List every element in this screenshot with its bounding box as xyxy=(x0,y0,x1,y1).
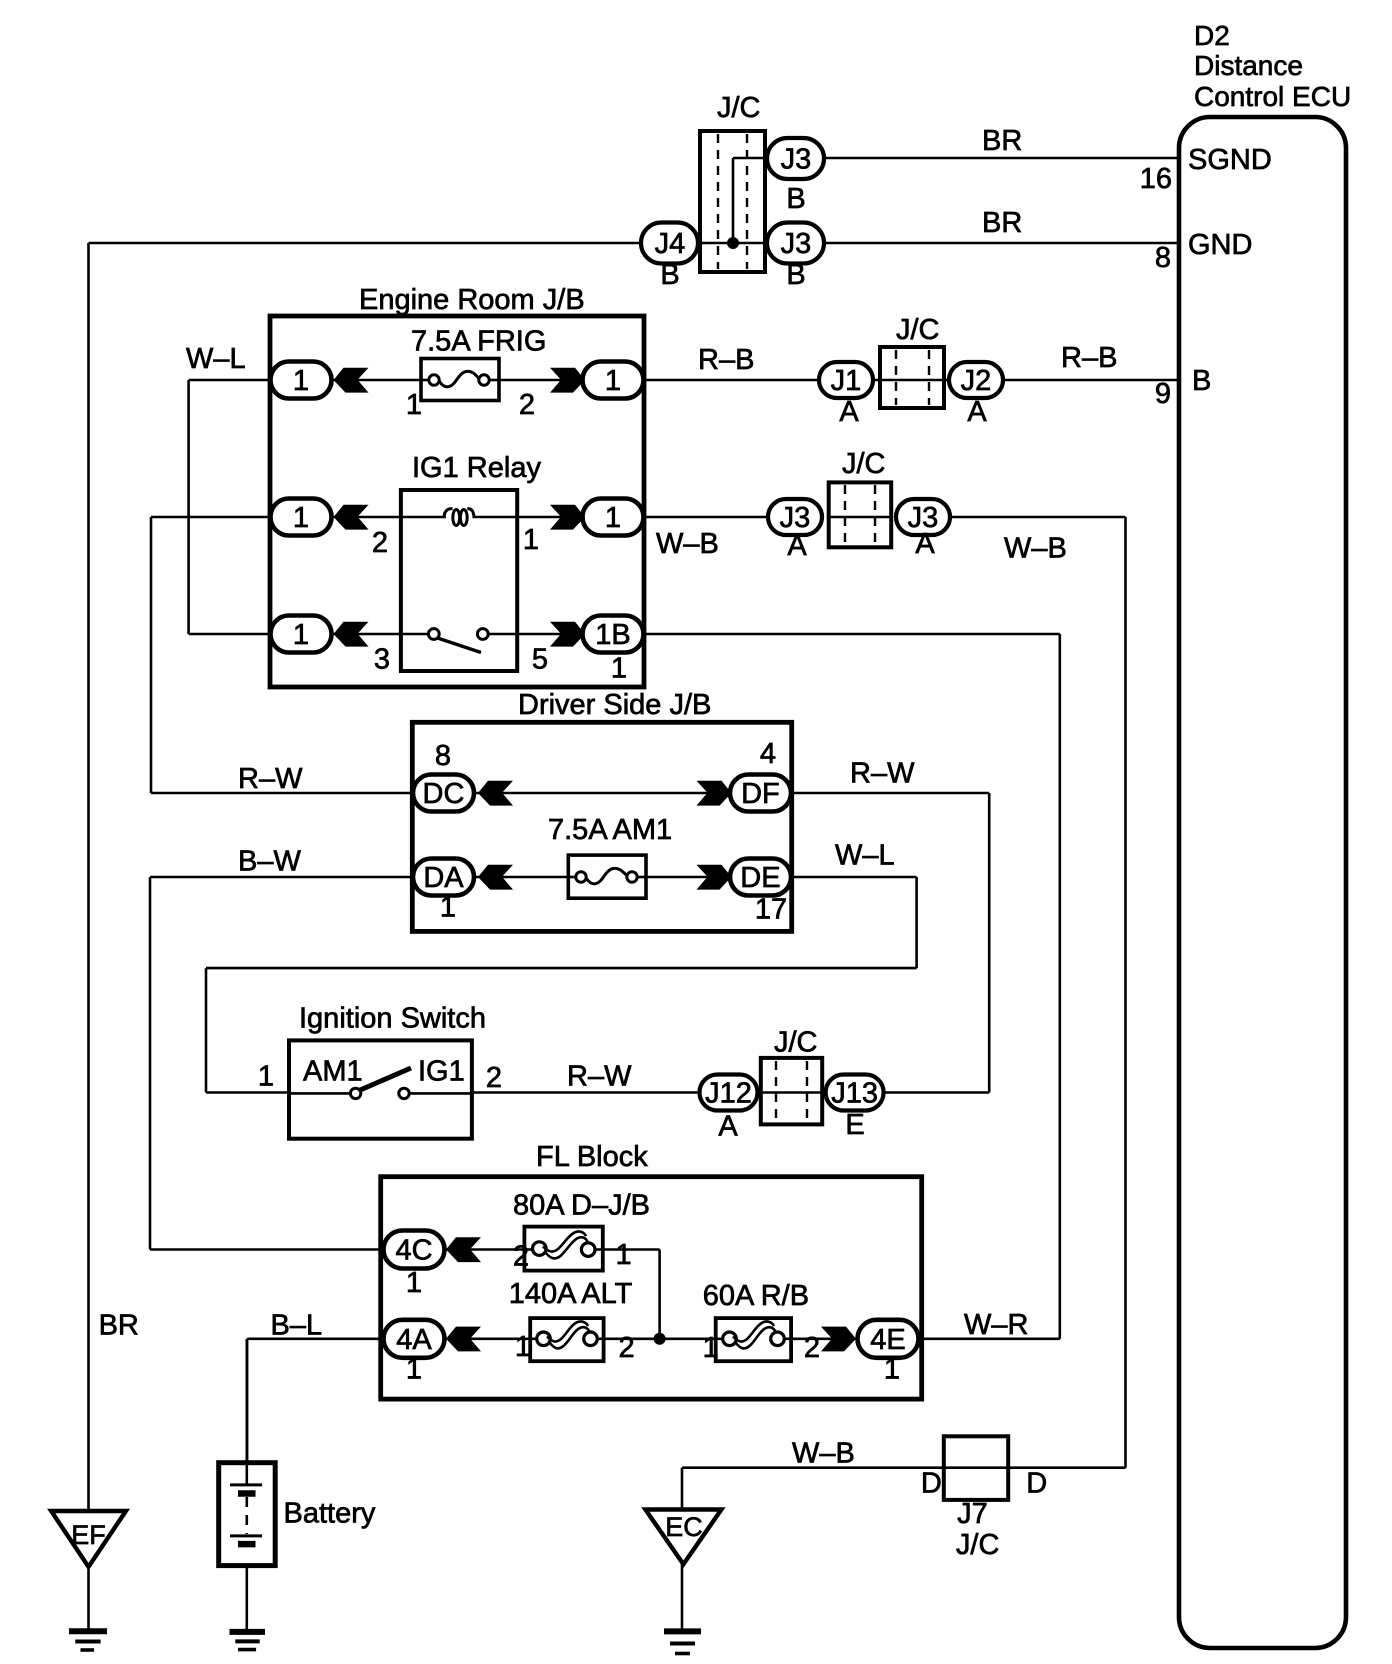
svg-text:8: 8 xyxy=(1155,242,1171,274)
svg-text:J4: J4 xyxy=(655,228,686,260)
svg-text:1: 1 xyxy=(523,524,539,556)
svg-text:1: 1 xyxy=(611,652,627,684)
svg-text:B–L: B–L xyxy=(271,1309,323,1341)
svg-text:DF: DF xyxy=(741,778,780,810)
svg-text:J12: J12 xyxy=(705,1078,752,1110)
svg-text:A: A xyxy=(718,1110,738,1142)
svg-text:A: A xyxy=(967,396,987,428)
svg-text:16: 16 xyxy=(1140,163,1172,195)
svg-text:J7: J7 xyxy=(957,1498,988,1530)
svg-text:J/C: J/C xyxy=(842,448,886,480)
svg-text:E: E xyxy=(845,1109,864,1141)
svg-text:R–W: R–W xyxy=(238,763,303,795)
svg-text:SGND: SGND xyxy=(1188,144,1272,176)
svg-text:2: 2 xyxy=(619,1332,635,1364)
svg-text:Driver Side J/B: Driver Side J/B xyxy=(518,689,711,721)
svg-text:1: 1 xyxy=(605,365,621,397)
svg-text:FL Block: FL Block xyxy=(536,1141,648,1173)
svg-text:B: B xyxy=(660,259,679,291)
svg-text:1: 1 xyxy=(616,1239,632,1271)
svg-text:R–B: R–B xyxy=(698,344,754,376)
svg-text:D: D xyxy=(1026,1468,1047,1500)
svg-text:DA: DA xyxy=(423,862,464,894)
svg-text:17: 17 xyxy=(755,893,787,925)
svg-text:80A D–J/B: 80A D–J/B xyxy=(513,1190,650,1222)
svg-text:2: 2 xyxy=(513,1241,529,1273)
svg-text:1: 1 xyxy=(293,619,309,651)
svg-text:1: 1 xyxy=(884,1353,900,1385)
svg-text:4E: 4E xyxy=(870,1324,905,1356)
svg-text:Control ECU: Control ECU xyxy=(1194,81,1351,112)
svg-text:1: 1 xyxy=(440,891,456,923)
svg-text:AM1: AM1 xyxy=(303,1056,363,1088)
svg-text:1: 1 xyxy=(515,1331,531,1363)
svg-text:1: 1 xyxy=(406,1267,422,1299)
svg-text:IG1 Relay: IG1 Relay xyxy=(412,452,541,484)
svg-text:EF: EF xyxy=(71,1520,106,1550)
svg-text:Ignition Switch: Ignition Switch xyxy=(299,1003,486,1035)
svg-text:60A R/B: 60A R/B xyxy=(703,1280,809,1312)
svg-text:R–W: R–W xyxy=(567,1061,632,1093)
svg-text:A: A xyxy=(787,530,807,562)
svg-text:1: 1 xyxy=(293,365,309,397)
svg-text:W–L: W–L xyxy=(186,343,246,375)
svg-text:5: 5 xyxy=(532,644,548,676)
svg-text:R–W: R–W xyxy=(850,758,915,790)
svg-text:3: 3 xyxy=(374,644,390,676)
svg-text:1: 1 xyxy=(406,389,422,421)
svg-text:BR: BR xyxy=(982,125,1022,157)
svg-text:B: B xyxy=(1192,365,1211,397)
svg-text:1: 1 xyxy=(605,502,621,534)
svg-text:A: A xyxy=(839,396,859,428)
svg-text:J3: J3 xyxy=(781,228,812,260)
svg-text:BR: BR xyxy=(982,207,1022,239)
svg-text:J/C: J/C xyxy=(774,1026,818,1058)
svg-text:R–B: R–B xyxy=(1061,342,1117,374)
svg-text:9: 9 xyxy=(1155,378,1171,410)
svg-text:1: 1 xyxy=(258,1061,274,1093)
svg-text:DC: DC xyxy=(423,778,465,810)
svg-text:D: D xyxy=(921,1468,942,1500)
svg-text:W–B: W–B xyxy=(656,528,719,560)
svg-text:J13: J13 xyxy=(831,1078,878,1110)
svg-text:BR: BR xyxy=(99,1310,139,1342)
svg-text:J2: J2 xyxy=(961,365,992,397)
svg-text:A: A xyxy=(915,528,935,560)
svg-text:EC: EC xyxy=(665,1512,703,1542)
svg-text:Engine Room J/B: Engine Room J/B xyxy=(359,284,585,316)
svg-text:2: 2 xyxy=(519,389,535,421)
svg-text:1: 1 xyxy=(293,502,309,534)
svg-text:B–W: B–W xyxy=(238,845,301,877)
svg-text:DE: DE xyxy=(740,862,780,894)
svg-text:W–L: W–L xyxy=(835,840,895,872)
svg-text:140A ALT: 140A ALT xyxy=(509,1278,633,1310)
svg-text:J1: J1 xyxy=(831,365,862,397)
svg-text:2: 2 xyxy=(804,1332,820,1364)
svg-text:D2: D2 xyxy=(1194,20,1230,51)
svg-text:1: 1 xyxy=(703,1332,719,1364)
svg-text:GND: GND xyxy=(1188,229,1252,261)
svg-text:W–B: W–B xyxy=(792,1438,855,1470)
svg-text:J/C: J/C xyxy=(717,92,761,124)
svg-text:2: 2 xyxy=(486,1062,502,1094)
svg-text:1B: 1B xyxy=(595,619,630,651)
svg-text:4A: 4A xyxy=(396,1324,432,1356)
svg-text:B: B xyxy=(786,183,805,215)
svg-text:J/C: J/C xyxy=(956,1529,1000,1561)
svg-text:4C: 4C xyxy=(395,1235,432,1267)
svg-text:Battery: Battery xyxy=(284,1498,376,1530)
svg-text:B: B xyxy=(786,259,805,291)
svg-text:8: 8 xyxy=(435,740,451,772)
svg-text:J3: J3 xyxy=(781,144,812,176)
svg-text:IG1: IG1 xyxy=(418,1056,465,1088)
svg-text:J/C: J/C xyxy=(896,314,940,346)
svg-text:W–B: W–B xyxy=(1004,533,1067,565)
svg-text:W–R: W–R xyxy=(964,1309,1028,1341)
svg-text:7.5A AM1: 7.5A AM1 xyxy=(548,814,672,846)
svg-text:4: 4 xyxy=(760,738,776,770)
svg-text:Distance: Distance xyxy=(1194,50,1303,81)
svg-text:7.5A FRIG: 7.5A FRIG xyxy=(411,326,546,358)
svg-text:1: 1 xyxy=(406,1353,422,1385)
svg-text:2: 2 xyxy=(372,527,388,559)
